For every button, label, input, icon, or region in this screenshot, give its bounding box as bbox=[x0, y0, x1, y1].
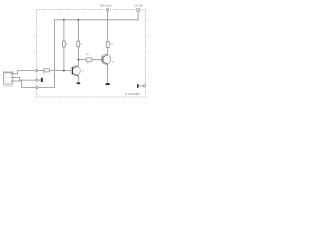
svg-text:+5V 5W: +5V 5W bbox=[134, 4, 143, 7]
svg-text:to serial port: to serial port bbox=[3, 84, 13, 87]
svg-text:1k: 1k bbox=[43, 73, 45, 75]
svg-text:5W Empty: 5W Empty bbox=[100, 5, 112, 8]
svg-text:to GND DB9: to GND DB9 bbox=[125, 92, 140, 96]
svg-text:RS232 DB9: RS232 DB9 bbox=[3, 71, 13, 73]
